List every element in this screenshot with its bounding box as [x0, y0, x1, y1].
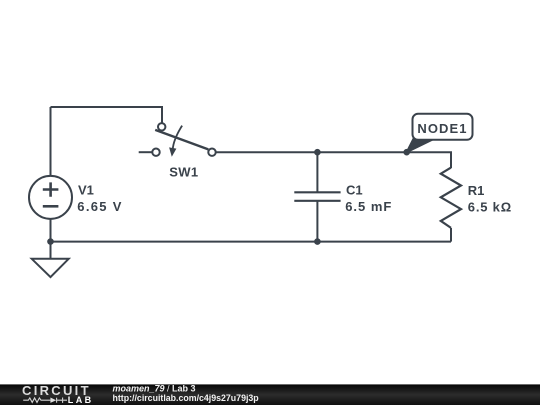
svg-text:LAB: LAB: [68, 395, 94, 405]
svg-text:http://circuitlab.com/c4j9s27u: http://circuitlab.com/c4j9s27u79j3p: [113, 393, 260, 403]
switch SW1: [155, 130, 208, 150]
wire capacitor top lead: [316, 152, 318, 192]
ground: [32, 259, 69, 277]
svg-text:moamen_79 / Lab 3: moamen_79 / Lab 3: [113, 383, 196, 393]
svg-text:SW1: SW1: [169, 165, 198, 180]
capacitor C1: [294, 192, 340, 201]
voltage source V1: [29, 176, 72, 219]
svg-text:NODE1: NODE1: [417, 121, 467, 136]
node capacitor top junction: [314, 149, 321, 156]
wire capacitor bottom lead: [316, 201, 318, 242]
svg-text:6.65 V: 6.65 V: [77, 199, 122, 214]
logo waveform: [23, 398, 67, 403]
wire top-left vertical: [50, 107, 52, 176]
node NODE1 flag: [407, 139, 434, 152]
wire top horizontal: [51, 107, 163, 124]
svg-text:C1: C1: [346, 182, 363, 197]
svg-text:R1: R1: [468, 183, 485, 198]
wire V1 bottom: [50, 219, 52, 258]
wire switch to node to resistor: [216, 152, 451, 168]
node NODE1 dot: [403, 149, 410, 156]
svg-text:6.5 mF: 6.5 mF: [345, 199, 392, 214]
svg-text:V1: V1: [78, 182, 94, 197]
wire switch left stub: [139, 151, 153, 153]
node capacitor bottom junction: [314, 238, 321, 245]
wire resistor bottom lead: [450, 228, 452, 242]
wire bottom horizontal: [51, 241, 452, 243]
node ground junction: [47, 238, 54, 245]
svg-text:6.5 kΩ: 6.5 kΩ: [468, 200, 512, 215]
resistor R1: [441, 168, 461, 228]
